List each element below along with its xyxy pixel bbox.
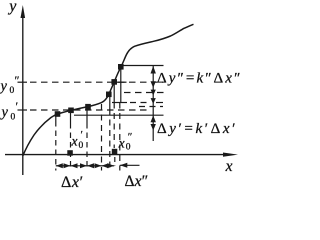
delta-x' arrow line 1 xyxy=(56,165,71,167)
mid increment arrowhead upper xyxy=(151,90,156,96)
y axis xyxy=(22,14,24,175)
dashed level line y0' xyxy=(30,109,151,111)
svg-text:y: y xyxy=(0,105,9,121)
delta-x'' left arrowhead xyxy=(120,163,128,168)
dropline from point B (x0'') xyxy=(113,85,115,103)
mid increment arrowhead lower xyxy=(151,98,156,104)
svg-text:y: y xyxy=(7,0,17,15)
solid level line of point 1 xyxy=(74,114,164,116)
svg-text:Δy″=k″Δx″: Δy″=k″Δx″ xyxy=(157,71,242,87)
up arrowhead of delta-y' arrow xyxy=(151,115,156,122)
curve point square 1 xyxy=(55,111,61,117)
up arrowhead top of delta-y'' arrow xyxy=(151,66,156,74)
svg-text:x: x xyxy=(71,134,78,149)
dropline from point 2 (x0') xyxy=(70,113,72,123)
svg-text:′: ′ xyxy=(81,129,83,141)
axis tick y0' xyxy=(18,109,28,111)
curve point square C xyxy=(106,92,112,98)
delta-x'' arrow line xyxy=(120,164,140,166)
svg-text:″: ″ xyxy=(15,73,20,87)
dashed level line of point C xyxy=(124,92,164,94)
level line 102.5 solid part xyxy=(112,102,127,104)
curve point square 2 at x0' xyxy=(68,108,74,114)
x axis arrowhead xyxy=(223,153,238,157)
svg-text:″: ″ xyxy=(128,131,133,143)
down arrowhead of delta-y'' arrow xyxy=(151,81,156,88)
svg-text:′: ′ xyxy=(16,99,19,113)
solid level segment right of point B xyxy=(114,81,127,83)
svg-text:Δx″: Δx″ xyxy=(125,173,149,190)
y axis arrowhead xyxy=(21,5,26,18)
svg-text:0: 0 xyxy=(11,113,16,123)
dropline from point 3 xyxy=(86,110,88,124)
dropline from point 1 xyxy=(55,117,57,122)
curve point square A xyxy=(118,64,124,70)
curve point square B at x0'' xyxy=(111,79,117,85)
svg-text:0: 0 xyxy=(126,143,131,153)
axis square at x0' xyxy=(67,150,73,156)
x axis xyxy=(5,154,226,156)
dashed level line of point 3 xyxy=(139,106,163,108)
svg-text:x: x xyxy=(225,158,233,175)
vertical increment-arrow shaft xyxy=(152,66,154,142)
delta-x' arrow line 4 xyxy=(102,165,115,167)
svg-text:Δx′: Δx′ xyxy=(61,174,84,191)
axis tick y0'' xyxy=(18,81,28,83)
svg-text:0: 0 xyxy=(79,141,84,151)
delta-x' arrow line 3 xyxy=(87,165,102,167)
curve point square 3 xyxy=(85,104,91,110)
curve y(x) xyxy=(23,24,194,156)
level line 102.5 right stub xyxy=(156,102,163,104)
svg-text:y: y xyxy=(0,79,8,95)
down arrowhead of delta-y' arrow xyxy=(151,124,156,131)
dropline from point A xyxy=(120,68,122,103)
delta-x' arrow line 2 xyxy=(71,165,88,167)
dropline from point C xyxy=(109,97,111,110)
delta-x' arrowheads xyxy=(56,163,63,168)
dropline at x=101.5 xyxy=(101,104,103,171)
svg-text:x: x xyxy=(118,136,125,151)
svg-text:Δy′=k′Δx′: Δy′=k′Δx′ xyxy=(157,121,238,137)
level line 102.5 dashed part xyxy=(130,102,147,104)
svg-text:0: 0 xyxy=(10,86,15,96)
dashed level line y0'' xyxy=(30,81,163,83)
solid level bar at point A xyxy=(121,65,164,67)
axis square at x0'' xyxy=(112,149,118,155)
